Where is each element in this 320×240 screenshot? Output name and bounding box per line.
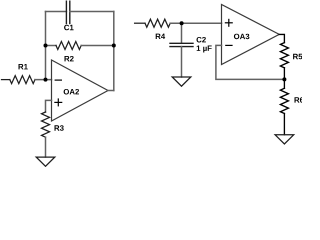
label R5 bbox=[293, 54, 302, 60]
wire OA3 inverting hook bbox=[216, 45, 285, 79]
wire C1 to right rail bbox=[70, 11, 114, 13]
ground under C2 bbox=[172, 77, 191, 86]
resistor R2 bbox=[56, 42, 81, 50]
wire OA2 output to rail bbox=[108, 90, 114, 92]
wire R4 to OA3 noninverting input bbox=[170, 22, 221, 24]
node junction R1 inverting input bbox=[44, 78, 48, 82]
wire R1 input lead bbox=[2, 79, 10, 81]
ground under R6 bbox=[275, 135, 294, 144]
resistor R4 bbox=[145, 19, 170, 27]
label OA3 bbox=[234, 34, 250, 40]
op-amp OA2 bbox=[52, 60, 109, 121]
op-amp OA2 plus mark bbox=[54, 102, 62, 103]
wire R3 to ground bbox=[45, 137, 47, 157]
wire R6 to ground bbox=[283, 114, 285, 135]
wire C2 top lead bbox=[181, 23, 183, 43]
resistor R3 bbox=[42, 112, 50, 137]
label R1 bbox=[19, 64, 28, 69]
label R4 bbox=[156, 34, 165, 39]
label R2 bbox=[65, 56, 74, 61]
wire right feedback rail bbox=[113, 12, 115, 91]
wire top rail to C1 bbox=[46, 11, 67, 13]
label 1 uF bbox=[197, 46, 212, 53]
op-amp OA3 minus mark bbox=[225, 45, 232, 46]
label C2 bbox=[197, 37, 206, 43]
junction R2 right bbox=[112, 44, 116, 48]
op-amp OA3 bbox=[222, 5, 280, 65]
wire R2 left lead bbox=[46, 45, 57, 47]
wire R1 to inverting input bbox=[35, 79, 52, 81]
junction R2 left bbox=[44, 44, 48, 48]
node junction R4 C2 bbox=[180, 21, 184, 25]
label R6 bbox=[295, 97, 304, 103]
resistor R1 bbox=[10, 76, 35, 84]
wire R2 right lead bbox=[81, 45, 114, 47]
resistor R6 bbox=[280, 88, 288, 113]
label R3 bbox=[55, 125, 64, 131]
capacitor C1 bbox=[65, 1, 67, 23]
label C1 bbox=[64, 25, 74, 31]
label OA2 bbox=[64, 89, 79, 95]
op-amp OA2 minus mark bbox=[55, 80, 62, 81]
wire left feedback rail bbox=[45, 12, 47, 80]
wire R5 to R6 bbox=[283, 68, 285, 89]
wire OA3 output bbox=[279, 34, 284, 42]
wire R4 input lead bbox=[135, 22, 145, 24]
junction R5 R6 feedback bbox=[282, 77, 286, 81]
capacitor C2 bbox=[170, 42, 193, 44]
ground under R3 bbox=[36, 157, 55, 166]
wire C2 to ground bbox=[181, 47, 183, 77]
wire OA2 noninverting hook bbox=[46, 100, 52, 112]
resistor R5 bbox=[280, 43, 288, 68]
op-amp OA3 plus mark bbox=[225, 22, 233, 23]
